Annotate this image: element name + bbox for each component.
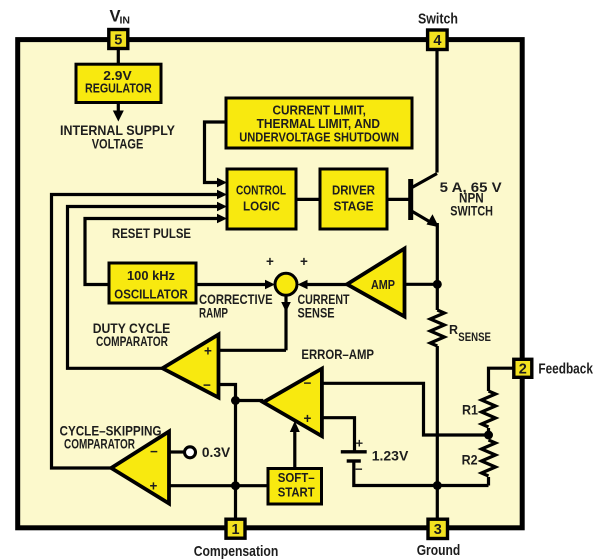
label corrective ramp: [199, 291, 273, 321]
svg-text:1.23V: 1.23V: [372, 448, 409, 464]
svg-text:+: +: [204, 344, 212, 359]
label internal supply voltage: [60, 122, 176, 151]
wire: battery minus to ground rail: [354, 463, 489, 486]
node: divider junction: [484, 431, 493, 440]
svg-text:+: +: [266, 254, 274, 269]
svg-text:100 kHz: 100 kHz: [127, 268, 175, 283]
op-amp error amplifier: [263, 369, 322, 437]
svg-text:COMPARATOR: COMPARATOR: [64, 436, 135, 452]
svg-text:OSCILLATOR: OSCILLATOR: [114, 287, 188, 302]
svg-text:R1: R1: [462, 402, 478, 418]
battery 1.23V reference: [341, 435, 409, 476]
wire: pin2 to feedback divider: [489, 368, 515, 391]
label reset pulse: [112, 225, 191, 241]
wire: error amp minus input from feedback divider: [322, 383, 489, 435]
svg-text:−: −: [355, 462, 363, 477]
svg-text:STAGE: STAGE: [334, 198, 374, 213]
svg-text:R: R: [449, 323, 458, 337]
resistor R2: [462, 440, 496, 476]
wire: Rsense bottom to ground node: [436, 346, 439, 519]
svg-text:SENSE: SENSE: [458, 330, 491, 344]
wire: current limit block to control logic arrow: [205, 122, 228, 187]
terminal 0.3V: [185, 444, 231, 460]
svg-text:SENSE: SENSE: [298, 305, 335, 321]
resistor R1: [462, 391, 496, 427]
wire: error amp output to compensation rail: [236, 399, 264, 402]
pin 2 Feedback: [514, 359, 532, 377]
wire: oscillator output to summing node: [196, 280, 275, 290]
svg-text:Switch: Switch: [418, 10, 458, 27]
svg-text:SWITCH: SWITCH: [450, 203, 493, 219]
svg-text:VOLTAGE: VOLTAGE: [92, 135, 144, 151]
resistor Rsense: [430, 310, 491, 346]
wire: regulator output arrow to internal supply: [113, 102, 124, 122]
comparator cycle-skipping: [111, 432, 169, 504]
label error-amp: [301, 346, 374, 362]
svg-text:REGULATOR: REGULATOR: [85, 81, 152, 96]
wire: duty cycle minus input to compensation rail: [219, 385, 236, 520]
node: amp input junction: [433, 280, 442, 289]
wire: emitter down to Rsense: [436, 223, 439, 310]
svg-text:COMPARATOR: COMPARATOR: [96, 333, 168, 349]
wire: pin5 to regulator: [117, 42, 120, 65]
label Vin: [110, 8, 131, 27]
svg-text:Ground: Ground: [417, 542, 461, 559]
wire: summing node down to duty cycle comparator plus input: [219, 295, 291, 350]
svg-text:AMP: AMP: [371, 278, 395, 292]
comparator duty cycle: [163, 335, 219, 398]
svg-text:2: 2: [519, 361, 527, 377]
svg-text:RESET PULSE: RESET PULSE: [112, 225, 191, 241]
summing node: [266, 254, 308, 295]
svg-text:−: −: [304, 376, 312, 391]
svg-text:1: 1: [231, 522, 239, 538]
wire: duty cycle output to control logic arrow: [68, 202, 228, 369]
wire: cycle-skipping plus input to soft-start: [169, 484, 268, 487]
wire: amp input from Rsense top node: [405, 283, 438, 286]
wire: amp output to summing node: [298, 280, 348, 290]
svg-text:CONTROL: CONTROL: [236, 182, 286, 197]
svg-text:+: +: [356, 435, 364, 450]
svg-text:START: START: [278, 485, 315, 500]
node: error amp output junction: [231, 396, 240, 405]
wire: cycle-skipping output to control logic arrow: [52, 190, 228, 468]
label Feedback: [538, 361, 593, 378]
wire: soft-start arrow up to error amp: [290, 421, 300, 469]
svg-text:IN: IN: [120, 15, 131, 27]
wire: R2 bottom to ground rail: [487, 477, 490, 486]
svg-text:UNDERVOLTAGE SHUTDOWN: UNDERVOLTAGE SHUTDOWN: [239, 130, 399, 145]
driver stage block: [320, 169, 387, 229]
wire: error amp plus input to reference battery: [322, 418, 355, 450]
wire: oscillator reset pulse to control logic arrow: [85, 214, 227, 285]
wire: cycle-skipping minus input to 0.3V terminal: [169, 450, 184, 453]
svg-text:Feedback: Feedback: [538, 361, 593, 378]
svg-text:DRIVER: DRIVER: [332, 182, 376, 197]
wire: collector to pin 4: [435, 42, 438, 173]
oscillator block 100 kHz: [109, 263, 196, 303]
label current sense: [298, 291, 350, 321]
svg-text:R2: R2: [462, 452, 478, 468]
label Switch: [418, 10, 458, 27]
IC boundary box: [18, 40, 523, 528]
svg-text:0.3V: 0.3V: [202, 444, 231, 460]
svg-text:+: +: [150, 478, 158, 493]
transistor Q1 npn switch: [408, 174, 439, 228]
node: ground rail junction: [433, 481, 442, 490]
regulator block 2.9V: [76, 64, 161, 102]
op-amp AMP current sense amplifier: [347, 249, 405, 317]
wire: control logic to driver stage: [296, 198, 320, 201]
svg-text:RAMP: RAMP: [199, 305, 228, 321]
svg-text:3: 3: [434, 522, 442, 538]
svg-text:Compensation: Compensation: [194, 543, 279, 560]
svg-text:ERROR–AMP: ERROR–AMP: [301, 346, 374, 362]
svg-text:5: 5: [114, 33, 122, 49]
svg-text:−: −: [150, 444, 158, 459]
node: compensation junction: [231, 481, 240, 490]
label Compensation: [194, 543, 279, 560]
soft-start block: [268, 469, 322, 505]
svg-text:SOFT–: SOFT–: [278, 470, 315, 485]
label cycle-skipping comparator: [60, 423, 162, 452]
wire: driver stage to transistor base: [387, 198, 409, 201]
wire: R1 bottom to divider node: [487, 428, 490, 439]
control logic block: [227, 169, 296, 229]
svg-text:LOGIC: LOGIC: [243, 198, 281, 213]
pin 3 Ground: [428, 519, 448, 538]
svg-text:+: +: [304, 411, 312, 426]
svg-text:4: 4: [433, 33, 441, 49]
pin 4 Switch: [428, 30, 448, 50]
pin 1 Compensation: [226, 519, 245, 538]
protection block U2 current/thermal/undervoltage: [226, 98, 412, 148]
label 5A 65V npn switch: [440, 179, 503, 219]
pin 5 Vin: [109, 30, 128, 49]
label Ground: [417, 542, 461, 559]
svg-text:+: +: [300, 254, 308, 269]
label duty cycle comparator: [93, 320, 171, 349]
svg-text:−: −: [203, 378, 211, 393]
